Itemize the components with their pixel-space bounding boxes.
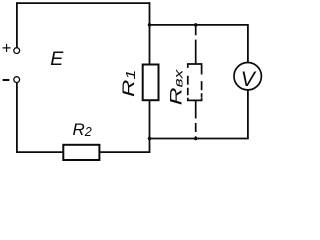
wire left upper vertical [16, 2, 18, 47]
wire top horizontal [17, 2, 150, 4]
node junction dot bottom Rbx [194, 137, 198, 141]
wire Rbx bottom lead (dashed) [195, 100, 197, 138]
wire bottom left horizontal [16, 151, 62, 153]
svg-text:E: E [50, 48, 64, 70]
wire left lower vertical [16, 83, 18, 152]
resistor R2 [63, 145, 99, 160]
wire bottom middle horizontal [100, 151, 150, 153]
voltmeter V circle [234, 62, 261, 89]
wire top right horizontal [150, 24, 248, 26]
wire jog up to node [149, 139, 151, 153]
wire voltmeter top lead [247, 24, 249, 62]
node junction dot top Rbx [194, 23, 198, 27]
wire Rbx top lead (dashed) [195, 25, 197, 64]
svg-text:V: V [241, 68, 257, 91]
resistor Rbx dashed left side [187, 76, 189, 95]
wire R1 branch top vertical [149, 2, 151, 64]
resistor Rbx dashed bottom edge [188, 97, 202, 100]
resistor Rbx dashed right side [201, 81, 203, 97]
svg-text:R2: R2 [73, 120, 92, 139]
wire bottom right horizontal [150, 138, 248, 140]
svg-text:R1: R1 [119, 70, 138, 97]
terminal + circle [14, 48, 20, 54]
svg-text:+: + [2, 40, 12, 58]
label - [3, 79, 10, 81]
node junction dot bottom left [148, 137, 152, 141]
resistor Rbx dashed top edge [188, 64, 202, 75]
resistor R1 [143, 65, 159, 101]
svg-text:Rвх: Rвх [167, 69, 186, 105]
node junction dot top left [148, 23, 152, 27]
wire R1 bottom lead [149, 100, 151, 138]
terminal - circle [14, 77, 20, 83]
wire voltmeter bottom lead [247, 90, 249, 139]
